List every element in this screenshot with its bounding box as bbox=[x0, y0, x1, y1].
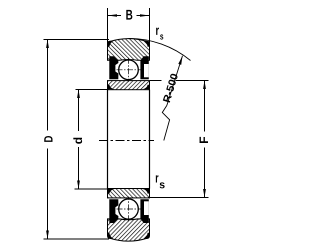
svg-text:r: r bbox=[155, 23, 159, 38]
svg-text:B: B bbox=[126, 8, 133, 24]
svg-text:D: D bbox=[41, 135, 55, 142]
svg-text:d: d bbox=[71, 137, 85, 144]
svg-text:s: s bbox=[159, 179, 165, 191]
svg-text:F: F bbox=[197, 136, 211, 144]
svg-text:s: s bbox=[160, 32, 164, 43]
